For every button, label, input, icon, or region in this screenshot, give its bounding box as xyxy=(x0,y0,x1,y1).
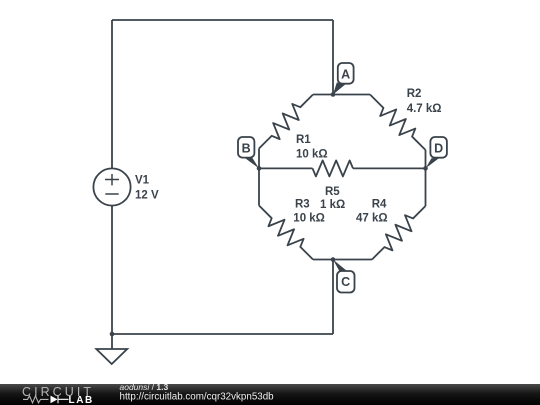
resistor R1 10 k xyxy=(253,89,327,161)
CircuitLab logo xyxy=(22,385,94,405)
svg-text:10 kΩ: 10 kΩ xyxy=(296,149,328,161)
junction dot at ground rail xyxy=(110,332,115,337)
wire left lower (V1 - to bottom rail) xyxy=(111,206,113,334)
ground xyxy=(96,334,127,364)
resistor R2 4.7 k xyxy=(364,88,441,155)
wire A right horizontal xyxy=(333,94,370,96)
svg-text:R1: R1 xyxy=(296,134,311,146)
wire C left horizontal xyxy=(313,259,333,261)
resistor R3 10 k xyxy=(253,198,325,265)
svg-text:1 kΩ: 1 kΩ xyxy=(320,199,345,211)
svg-text:C: C xyxy=(341,275,350,289)
wire node C to bottom rail xyxy=(332,260,334,335)
wire top xyxy=(112,19,333,21)
svg-text:V1: V1 xyxy=(135,175,150,187)
svg-text:R2: R2 xyxy=(407,88,422,100)
wire A left horizontal xyxy=(313,94,333,96)
wire D upper stub xyxy=(425,150,427,168)
wire C right horizontal xyxy=(333,259,372,261)
wire D lower stub xyxy=(425,168,427,206)
wire B lower stub xyxy=(258,168,260,205)
wire bottom xyxy=(112,333,333,335)
svg-text:http://circuitlab.com/cqr32vkp: http://circuitlab.com/cqr32vkpn53db xyxy=(120,392,275,403)
wire B upper stub xyxy=(258,149,260,169)
svg-text:D: D xyxy=(434,141,443,155)
voltage source V1 12 V xyxy=(93,168,159,205)
svg-text:R3: R3 xyxy=(295,198,310,210)
footer bar xyxy=(0,384,540,405)
node D xyxy=(423,137,447,171)
footer credit text xyxy=(120,382,275,403)
node A xyxy=(331,63,354,97)
svg-text:R4: R4 xyxy=(372,198,387,210)
wire right drop (top rail to node A) xyxy=(332,20,334,95)
svg-text:10 kΩ: 10 kΩ xyxy=(293,213,325,225)
svg-text:LAB: LAB xyxy=(69,395,94,405)
node B xyxy=(238,137,261,171)
resistor R5 1 k xyxy=(313,160,354,211)
svg-text:R5: R5 xyxy=(325,186,340,198)
svg-text:4.7 kΩ: 4.7 kΩ xyxy=(407,103,442,115)
resistor R4 47 k xyxy=(356,198,431,265)
svg-text:47 kΩ: 47 kΩ xyxy=(356,213,388,225)
node C xyxy=(331,257,355,292)
svg-text:aodunsi / 1.3: aodunsi / 1.3 xyxy=(120,382,169,392)
svg-text:A: A xyxy=(341,68,350,82)
svg-text:B: B xyxy=(242,141,251,155)
wire R5 right lead (R5 to D) xyxy=(353,167,426,169)
wire R5 left lead (B to R5) xyxy=(259,167,313,169)
wire left upper (top rail to V1 +) xyxy=(111,20,113,168)
svg-text:12 V: 12 V xyxy=(135,190,159,202)
